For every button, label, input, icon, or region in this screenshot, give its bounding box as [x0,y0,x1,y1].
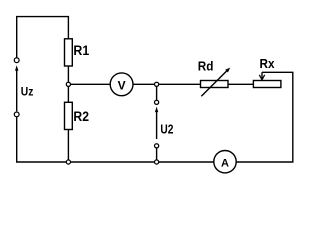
svg-text:R2: R2 [73,109,89,124]
svg-text:U2: U2 [160,122,173,137]
svg-text:Rd: Rd [198,60,214,74]
svg-text:R1: R1 [73,43,89,58]
svg-text:Uz: Uz [21,87,34,99]
svg-text:A: A [221,158,229,170]
svg-text:Rx: Rx [260,56,276,71]
svg-text:V: V [118,79,126,93]
